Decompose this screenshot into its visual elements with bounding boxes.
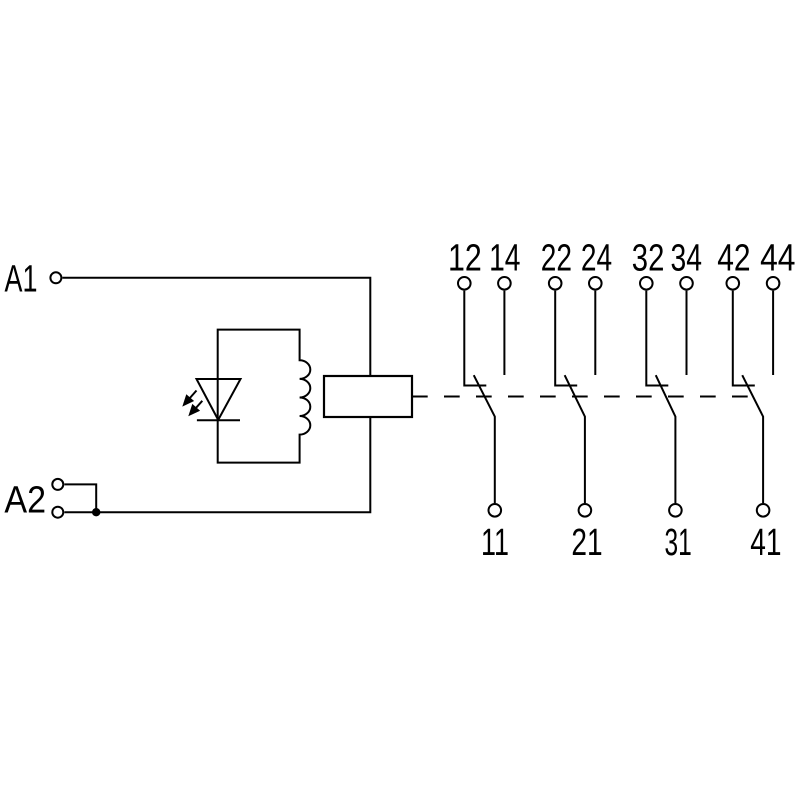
svg-text:11: 11 [481, 522, 509, 564]
terminal 41 [757, 504, 770, 517]
wire 24 NO [594, 291, 596, 375]
terminal 42 [727, 277, 740, 290]
svg-text:A2: A2 [4, 479, 46, 521]
relay coil K1 box [324, 376, 412, 417]
terminal 21 [579, 504, 592, 517]
terminal 14 [498, 277, 511, 290]
LED arrow 2 [195, 401, 202, 409]
wire A1 to coil (top) [63, 278, 371, 376]
terminal 44 [767, 277, 780, 290]
svg-text:A1: A1 [5, 259, 38, 301]
contact blade pole 2 + wire to 21 [565, 375, 585, 503]
wire coil to A2 rail (bottom) [96, 417, 370, 512]
svg-text:44: 44 [760, 237, 795, 279]
terminal A1 [50, 272, 61, 283]
svg-text:41: 41 [750, 522, 781, 564]
LED D1 triangle [197, 379, 241, 420]
contact blade pole 3 + wire to 31 [656, 375, 676, 503]
svg-text:12: 12 [448, 237, 482, 279]
wire A2 bridge [64, 484, 96, 512]
svg-text:22: 22 [541, 237, 572, 279]
svg-text:32: 32 [632, 237, 665, 279]
wire 44 NO [772, 291, 774, 375]
LED + inductor loop (inductor L1 on right side) [218, 330, 311, 463]
terminal 31 [669, 504, 682, 517]
svg-text:34: 34 [671, 237, 703, 279]
wire 32 NC contact [646, 291, 668, 386]
terminal 11 [489, 504, 502, 517]
terminal 12 [458, 277, 471, 290]
LED D1 cathode bar [197, 419, 240, 421]
terminal A2 upper [52, 479, 63, 490]
contact blade pole 1 + wire to 11 [474, 375, 495, 503]
wire 14 NO [503, 291, 505, 375]
terminal 22 [549, 277, 562, 290]
junction A2 [92, 508, 100, 516]
wire 22 NC contact [555, 291, 577, 386]
mechanical linkage (dashed) [412, 396, 748, 398]
wire 34 NO [686, 291, 688, 375]
LED arrow 1 [189, 391, 197, 400]
wire A2 lower stub [64, 511, 96, 513]
terminal 34 [680, 277, 693, 290]
svg-text:42: 42 [717, 237, 750, 279]
svg-text:14: 14 [489, 237, 520, 279]
terminal 32 [640, 277, 653, 290]
terminal 24 [589, 277, 602, 290]
contact blade pole 4 + wire to 41 [742, 375, 763, 503]
wire 42 NC contact [733, 291, 755, 386]
svg-text:31: 31 [664, 522, 691, 564]
svg-text:21: 21 [571, 522, 602, 564]
wire 12 NC contact [464, 291, 486, 386]
terminal A2 lower [52, 507, 63, 518]
svg-text:24: 24 [581, 237, 612, 279]
